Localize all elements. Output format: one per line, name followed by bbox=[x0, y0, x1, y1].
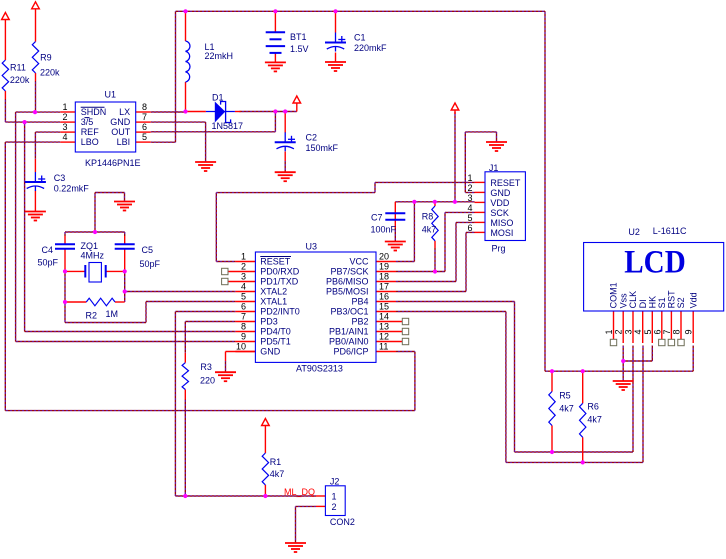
svg-text:4: 4 bbox=[62, 132, 67, 142]
svg-text:PD4/T0: PD4/T0 bbox=[260, 327, 291, 337]
svg-text:PD6/ICP: PD6/ICP bbox=[333, 347, 368, 357]
svg-text:8: 8 bbox=[672, 329, 682, 334]
svg-text:PD1/TXD: PD1/TXD bbox=[260, 277, 299, 287]
svg-text:L-1611C: L-1611C bbox=[653, 226, 687, 236]
svg-text:6: 6 bbox=[142, 122, 147, 132]
svg-text:XTAL1: XTAL1 bbox=[260, 297, 287, 307]
svg-text:7: 7 bbox=[662, 329, 672, 334]
svg-text:PB1/AIN1: PB1/AIN1 bbox=[329, 327, 369, 337]
svg-text:1M: 1M bbox=[106, 309, 119, 319]
svg-text:COM1: COM1 bbox=[609, 282, 619, 308]
svg-text:VDD: VDD bbox=[490, 198, 510, 208]
svg-text:5: 5 bbox=[643, 329, 653, 334]
svg-text:PB4: PB4 bbox=[351, 297, 368, 307]
svg-text:100nF: 100nF bbox=[371, 225, 397, 235]
svg-text:MOSI: MOSI bbox=[490, 228, 513, 238]
svg-text:3: 3 bbox=[624, 329, 634, 334]
svg-text:50pF: 50pF bbox=[38, 258, 59, 268]
svg-text:VCC: VCC bbox=[349, 257, 369, 267]
svg-text:10: 10 bbox=[236, 342, 246, 352]
svg-text:220: 220 bbox=[200, 375, 215, 385]
svg-text:4k7: 4k7 bbox=[422, 225, 437, 235]
svg-text:6: 6 bbox=[467, 223, 472, 233]
svg-text:19: 19 bbox=[379, 262, 389, 272]
svg-text:6: 6 bbox=[652, 329, 662, 334]
svg-text:4: 4 bbox=[241, 282, 246, 292]
svg-text:C4: C4 bbox=[42, 245, 54, 255]
svg-text:20: 20 bbox=[379, 252, 389, 262]
svg-text:U3: U3 bbox=[306, 242, 318, 252]
svg-text:Prg: Prg bbox=[492, 244, 506, 254]
svg-text:16: 16 bbox=[379, 292, 389, 302]
svg-text:OUT: OUT bbox=[111, 127, 131, 137]
svg-text:150mkF: 150mkF bbox=[306, 143, 339, 153]
svg-text:J1: J1 bbox=[489, 163, 499, 173]
svg-text:S2: S2 bbox=[676, 297, 686, 308]
svg-text:9: 9 bbox=[684, 329, 694, 334]
svg-text:3: 3 bbox=[62, 122, 67, 132]
svg-text:REF: REF bbox=[81, 127, 100, 137]
svg-text:1.5V: 1.5V bbox=[290, 44, 309, 54]
svg-text:C7: C7 bbox=[371, 213, 383, 223]
svg-text:220mkF: 220mkF bbox=[354, 43, 387, 53]
svg-text:ML_DQ: ML_DQ bbox=[284, 487, 315, 497]
svg-text:J2: J2 bbox=[330, 477, 340, 487]
svg-text:LBO: LBO bbox=[81, 137, 99, 147]
svg-text:5: 5 bbox=[142, 132, 147, 142]
svg-text:11: 11 bbox=[379, 342, 388, 352]
svg-text:4: 4 bbox=[467, 203, 472, 213]
svg-text:3: 3 bbox=[241, 272, 246, 282]
svg-text:PB3/OC1: PB3/OC1 bbox=[330, 307, 368, 317]
svg-text:R2: R2 bbox=[86, 311, 98, 321]
svg-text:5: 5 bbox=[241, 292, 246, 302]
svg-text:1N5817: 1N5817 bbox=[212, 121, 244, 131]
svg-text:17: 17 bbox=[379, 282, 389, 292]
svg-text:2: 2 bbox=[241, 262, 246, 272]
svg-text:14: 14 bbox=[379, 312, 389, 322]
svg-text:2: 2 bbox=[614, 329, 624, 334]
svg-text:6: 6 bbox=[241, 302, 246, 312]
svg-text:PB2: PB2 bbox=[351, 317, 368, 327]
svg-text:PD2/INT0: PD2/INT0 bbox=[260, 307, 300, 317]
svg-text:C5: C5 bbox=[142, 245, 154, 255]
svg-text:HK: HK bbox=[648, 296, 658, 309]
svg-text:1: 1 bbox=[62, 102, 67, 112]
svg-text:1: 1 bbox=[604, 329, 614, 334]
svg-text:13: 13 bbox=[379, 322, 389, 332]
svg-text:R6: R6 bbox=[587, 402, 599, 412]
svg-text:GND: GND bbox=[490, 188, 511, 198]
svg-text:PD0/RXD: PD0/RXD bbox=[260, 267, 300, 277]
svg-text:CLK: CLK bbox=[628, 291, 638, 309]
svg-text:Vdd: Vdd bbox=[688, 292, 698, 308]
svg-text:GND: GND bbox=[260, 347, 281, 357]
svg-text:PD3: PD3 bbox=[260, 317, 278, 327]
svg-text:RESET: RESET bbox=[260, 257, 291, 267]
svg-text:C3: C3 bbox=[54, 173, 66, 183]
svg-text:4k7: 4k7 bbox=[270, 469, 285, 479]
svg-text:S1: S1 bbox=[657, 297, 667, 308]
svg-text:7: 7 bbox=[241, 312, 246, 322]
svg-text:PD5/T1: PD5/T1 bbox=[260, 337, 291, 347]
svg-text:R1: R1 bbox=[270, 457, 282, 467]
svg-text:PB0/AIN0: PB0/AIN0 bbox=[329, 337, 369, 347]
svg-text:220k: 220k bbox=[10, 75, 30, 85]
svg-text:1: 1 bbox=[332, 492, 337, 502]
svg-text:50pF: 50pF bbox=[140, 259, 161, 269]
svg-text:8: 8 bbox=[241, 322, 246, 332]
svg-text:PB5/MOSI: PB5/MOSI bbox=[326, 287, 369, 297]
svg-text:2: 2 bbox=[62, 112, 67, 122]
svg-text:22mkH: 22mkH bbox=[205, 51, 234, 61]
svg-text:KP1446PN1E: KP1446PN1E bbox=[85, 158, 141, 168]
svg-text:3/5: 3/5 bbox=[81, 117, 94, 127]
svg-text:5: 5 bbox=[467, 213, 472, 223]
svg-text:R11: R11 bbox=[10, 62, 26, 72]
svg-text:4: 4 bbox=[633, 329, 643, 334]
svg-text:R5: R5 bbox=[559, 391, 571, 401]
svg-text:XTAL2: XTAL2 bbox=[260, 287, 287, 297]
svg-text:220k: 220k bbox=[40, 68, 60, 78]
svg-text:4k7: 4k7 bbox=[587, 414, 602, 424]
svg-text:8: 8 bbox=[142, 102, 147, 112]
svg-text:18: 18 bbox=[379, 272, 389, 282]
svg-text:LX: LX bbox=[119, 107, 130, 117]
svg-text:LBI: LBI bbox=[117, 137, 131, 147]
svg-text:LCD: LCD bbox=[624, 245, 686, 281]
svg-text:2: 2 bbox=[332, 502, 337, 512]
svg-text:R8: R8 bbox=[422, 212, 434, 222]
svg-text:2: 2 bbox=[467, 183, 472, 193]
svg-text:9: 9 bbox=[241, 332, 246, 342]
svg-text:7: 7 bbox=[142, 112, 147, 122]
svg-text:Vss: Vss bbox=[618, 293, 628, 309]
svg-text:4k7: 4k7 bbox=[559, 403, 574, 413]
svg-text:C1: C1 bbox=[354, 33, 366, 43]
svg-text:RST: RST bbox=[667, 290, 677, 309]
svg-text:15: 15 bbox=[379, 302, 389, 312]
svg-text:MISO: MISO bbox=[490, 218, 513, 228]
svg-text:CON2: CON2 bbox=[330, 517, 355, 527]
svg-text:GND: GND bbox=[110, 117, 131, 127]
svg-text:C2: C2 bbox=[306, 133, 318, 143]
svg-text:PB7/SCK: PB7/SCK bbox=[330, 267, 368, 277]
svg-text:12: 12 bbox=[379, 332, 389, 342]
svg-text:4MHz: 4MHz bbox=[81, 250, 105, 260]
svg-text:SCK: SCK bbox=[490, 208, 509, 218]
svg-text:R9: R9 bbox=[40, 53, 52, 63]
svg-text:DI: DI bbox=[638, 299, 648, 308]
svg-text:AT90S2313: AT90S2313 bbox=[296, 364, 343, 374]
svg-text:R3: R3 bbox=[200, 362, 212, 372]
svg-text:BT1: BT1 bbox=[290, 32, 307, 42]
svg-text:D1: D1 bbox=[212, 93, 224, 103]
svg-text:U1: U1 bbox=[105, 90, 117, 100]
svg-text:0.22mkF: 0.22mkF bbox=[54, 183, 90, 193]
svg-text:3: 3 bbox=[467, 193, 472, 203]
svg-text:RESET: RESET bbox=[490, 178, 521, 188]
svg-text:1: 1 bbox=[241, 252, 246, 262]
svg-text:PB6/MISO: PB6/MISO bbox=[326, 277, 369, 287]
svg-text:1: 1 bbox=[467, 173, 472, 183]
svg-text:SHDN: SHDN bbox=[81, 107, 107, 117]
svg-text:U2: U2 bbox=[628, 227, 640, 237]
